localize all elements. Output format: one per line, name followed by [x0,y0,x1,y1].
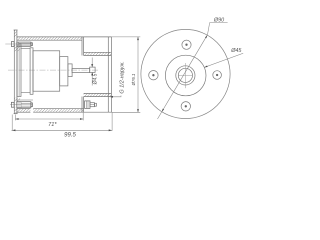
svg-text:Ø4.5: Ø4.5 [92,73,98,85]
svg-text:G 1/2-наруж.: G 1/2-наруж. [120,61,126,93]
svg-text:Ø45: Ø45 [230,48,242,54]
svg-text:Ø76.1: Ø76.1 [131,73,136,86]
svg-text:Ø90: Ø90 [213,18,224,24]
svg-text:71*: 71* [48,122,57,128]
svg-text:99.5: 99.5 [64,133,76,139]
